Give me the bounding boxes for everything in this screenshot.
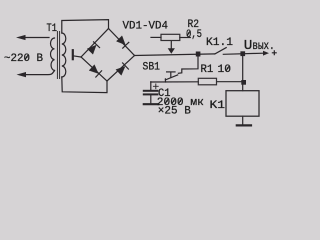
diode VD bottom-left [89,65,102,78]
resistor R2 body [161,34,180,40]
junction node A at output [240,51,245,56]
capacitor C1 top plate [144,90,158,92]
wire: mains bottom lead with arrow [20,71,55,75]
bridge edge VD top-right [109,29,135,56]
arrowhead mains top [16,35,26,40]
switch SB1 pusher cap [167,71,175,73]
svg-text:K1.1: K1.1 [206,37,233,49]
switch SB1 lever [165,75,177,80]
wire: bridge minus stub to ground [74,56,81,57]
svg-text:0,5: 0,5 [186,29,202,41]
wire: mains top lead with arrow [20,37,49,39]
bridge edge VD bottom-right [107,56,135,82]
svg-text:U: U [244,38,253,54]
svg-text:R1: R1 [201,64,214,76]
bridge edge VD top-left [81,29,109,58]
capacitor C1 bottom plate [144,93,158,95]
switch SB1 left fixed contact tick [164,79,166,82]
svg-text:вых.: вых. [252,40,274,53]
wire: secondary top to bridge top vertex [62,20,109,33]
resistor R1 right lead [217,81,241,83]
svg-text:VD1-VD4: VD1-VD4 [123,20,169,32]
junction node B on rail [196,52,201,57]
wire: common line C1 / SB1 left / R1 left [151,81,199,83]
capacitor C1 riser wire [150,82,152,90]
bridge edge VD bottom-left [81,57,107,81]
wire: K1 box to ground [242,116,244,124]
resistor R2 right lead [180,37,191,39]
relay K1 coil box [226,91,259,117]
resistor R2 left lead [151,36,161,38]
transformer T1 secondary winding [62,33,66,77]
svg-text:×25 В: ×25 В [158,106,191,118]
capacitor C1 plus sign [153,84,158,89]
svg-text:T1: T1 [47,23,58,35]
transformer T1 core [56,32,58,79]
wire: secondary bottom to bridge bottom vertex [62,77,107,93]
svg-text:K1: K1 [210,100,226,112]
arrowhead mains bottom [17,72,27,77]
ground bar at bridge minus [72,50,74,59]
relay contact K1.1 lever [215,48,226,54]
resistor R2 arrowhead onto rail [168,48,175,54]
slashed zero marks [25,31,229,104]
wire: C1 to ground [150,96,152,103]
switch SB1 pusher stem [170,72,172,77]
diode VD top-right [116,36,129,49]
svg-text:SB1: SB1 [143,62,161,74]
wire: from junction B down and left to SB1 right contact [178,54,198,73]
diode VD bottom-right [116,63,129,76]
wire: plus rail from bridge to K1.1 left contact [135,54,215,56]
output plus sign [272,50,277,55]
ground bar below C1 [144,103,158,105]
resistor R1 body [198,78,216,85]
junction node at R1 right [241,80,246,85]
wire: rail right of K1.1 to output arrow [223,53,263,54]
output arrowhead [263,51,269,56]
resistor R2 arrow shaft to rail [170,41,172,50]
ground bar below K1 [237,124,251,126]
wire: output junction down to relay K1 [242,54,244,91]
svg-text:~220 В: ~220 В [4,53,43,65]
transformer T1 primary winding [51,38,55,71]
diode VD top-left [87,41,100,54]
